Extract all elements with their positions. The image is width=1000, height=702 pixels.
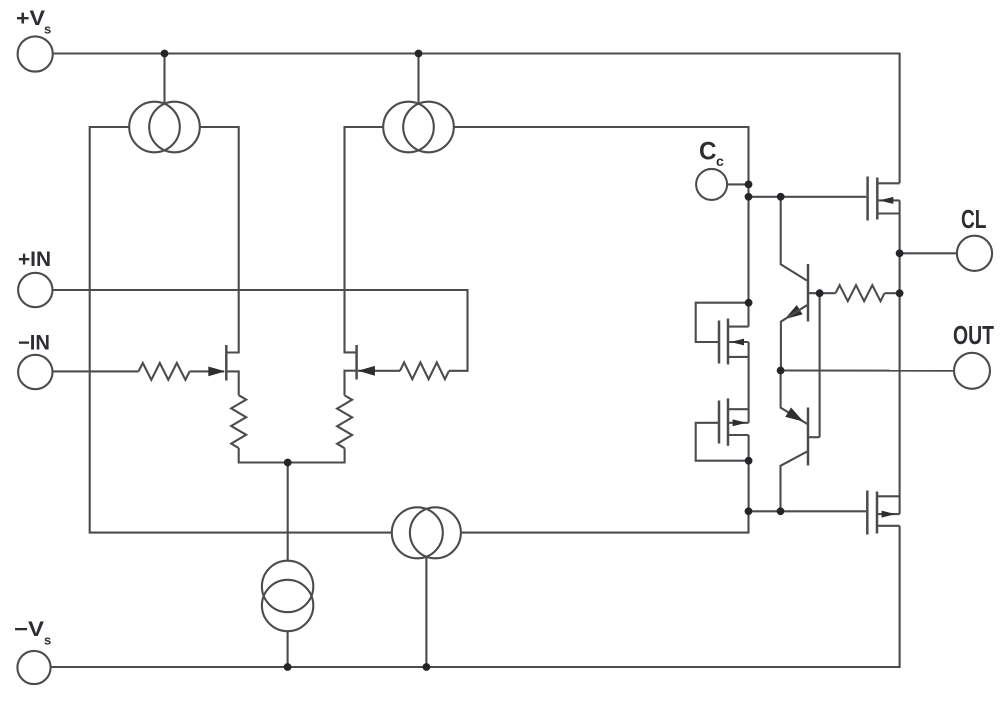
- transistor Q4: [785, 408, 808, 466]
- terminal -IN: [18, 355, 52, 389]
- wire CS3 right to node G2: [461, 511, 749, 532]
- junction node Cc: [745, 181, 753, 189]
- wire Q3 base to R5: [808, 292, 836, 294]
- svg-text:OUT: OUT: [953, 320, 994, 350]
- wire base branch Q3 to Q4: [819, 293, 821, 437]
- wire M3 source to M4 drain chain: [748, 342, 750, 423]
- terminal OUT: [954, 353, 990, 389]
- wire CS2 right down to node Cc and M3 drain: [454, 127, 749, 327]
- junction +Vs/CS2: [415, 50, 423, 58]
- wire tail to CS4: [287, 463, 289, 561]
- junction chain bottom: [745, 457, 753, 465]
- svg-text:+IN: +IN: [18, 248, 51, 271]
- wire M4 gate feed: [696, 423, 749, 461]
- junction Q4 collector / G2: [777, 507, 785, 515]
- wire M4 source to node G2: [748, 435, 750, 511]
- transistor M4: [719, 398, 749, 445]
- wire M3 gate feed: [696, 303, 749, 342]
- wire -IN to R1: [53, 370, 139, 372]
- transistor M2: [867, 491, 899, 535]
- wire CS2 top lead: [417, 54, 419, 104]
- wire Q3 emitter to node OUT: [781, 305, 807, 370]
- wire CS2 left to Q2 drain: [345, 127, 384, 352]
- wire bottom rail to M2 source: [50, 526, 899, 667]
- junction CS4/rail: [284, 663, 292, 671]
- wire tail junction: [239, 448, 345, 463]
- junction gate node: [745, 193, 753, 201]
- svg-text:s: s: [44, 633, 51, 648]
- junction R5 right: [896, 289, 904, 297]
- wire Q4 base: [808, 436, 820, 438]
- terminal +IN: [18, 273, 52, 307]
- current source I2: [383, 102, 454, 153]
- terminal Cc: [696, 169, 727, 200]
- wire gate node to M1 gate: [749, 196, 867, 198]
- svg-text:+V: +V: [16, 7, 45, 30]
- wire Q1 source to R3: [228, 371, 239, 395]
- wire +IN to R2: [53, 290, 468, 371]
- wire CS4 to rail: [287, 631, 289, 667]
- wire CS1 left loop to CS3 left: [90, 127, 392, 533]
- wire CS3 tap to rail: [425, 556, 427, 667]
- current source I1: [129, 102, 200, 153]
- resistor R3: [231, 395, 246, 448]
- terminal CL: [957, 236, 992, 271]
- resistor R4: [337, 395, 352, 448]
- junction Q3 collector branch: [777, 193, 785, 201]
- wire Q4 emitter from node OUT: [781, 371, 808, 425]
- wire Q3 collector: [781, 197, 807, 281]
- junction node CL: [896, 249, 904, 257]
- terminal +Vs: [18, 36, 53, 71]
- wire Cc: [727, 183, 748, 185]
- wire Q1 gate: [190, 370, 224, 372]
- resistor R5: [836, 285, 885, 301]
- transistor Q3: [785, 264, 809, 322]
- current source I4: [262, 561, 313, 632]
- resistor R1: [139, 363, 190, 380]
- wire +Vs rail to M1 drain: [53, 54, 900, 184]
- junction chain top: [745, 299, 753, 307]
- wire CS1 top lead: [163, 54, 165, 104]
- junction CS3 tap/rail: [423, 663, 431, 671]
- transistor Q1: [208, 345, 226, 381]
- transistor M1: [868, 177, 900, 221]
- svg-text:C: C: [699, 138, 717, 166]
- resistor R2: [400, 362, 449, 379]
- transistor Q2: [357, 345, 375, 380]
- junction +Vs/CS1: [161, 50, 169, 58]
- junction node G2: [745, 507, 753, 515]
- wire Q2 gate: [358, 370, 400, 372]
- svg-text:s: s: [44, 22, 51, 37]
- junction tail node: [284, 459, 292, 467]
- wire M2 gate line: [749, 510, 867, 512]
- wire M1 source chain to M2 body: [899, 200, 901, 514]
- current source I3: [392, 507, 461, 558]
- wire OUT: [781, 369, 954, 371]
- svg-text:c: c: [716, 153, 724, 169]
- terminal -Vs: [17, 651, 50, 684]
- wire Q2 source to R4: [345, 371, 356, 396]
- svg-text:−V: −V: [14, 618, 44, 641]
- wire Q4 collector to node G2: [781, 452, 808, 512]
- wire R5 to M1 source chain: [885, 292, 900, 294]
- junction R5 left / base branch: [816, 289, 824, 297]
- wire CL: [900, 252, 957, 254]
- junction node OUT: [777, 367, 785, 375]
- svg-text:CL: CL: [961, 204, 987, 234]
- transistor M3: [719, 319, 749, 365]
- wire CS1 right to Q1 drain: [200, 127, 239, 353]
- svg-text:−IN: −IN: [18, 332, 50, 355]
